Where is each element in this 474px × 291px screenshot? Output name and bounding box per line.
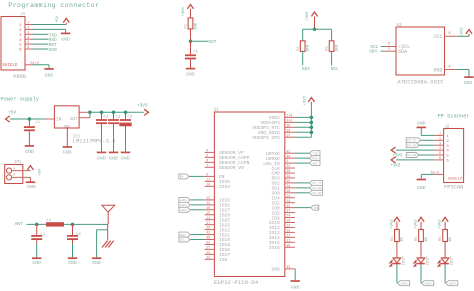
net tag FP_RX: [310, 185, 323, 190]
svg-text:10: 10: [206, 182, 210, 186]
pin VDDA of U1: [269, 114, 295, 122]
net tag TXD: [310, 151, 321, 156]
ground under J2: [417, 180, 426, 191]
chassis ground (antenna): [102, 230, 114, 248]
wire to RST label: [191, 40, 209, 42]
svg-text:12: 12: [206, 201, 210, 205]
wire U1 GND: [294, 269, 296, 280]
svg-text:SENSOR_VN: SENSOR_VN: [219, 165, 244, 171]
svg-text:GND: GND: [92, 260, 101, 266]
svg-text:FP_EN: FP_EN: [312, 192, 321, 195]
svg-text:+3V3: +3V3: [414, 219, 418, 229]
svg-text:22: 22: [287, 199, 291, 203]
capacitor C6 (polarized): [119, 120, 131, 126]
svg-text:15: 15: [287, 229, 291, 233]
section title: Power supply: [1, 96, 40, 102]
wire SCL label: [381, 46, 385, 48]
wire R2 to SDA: [302, 51, 304, 65]
svg-text:+3V3: +3V3: [390, 164, 401, 168]
svg-text:ATECC508A-SOIC: ATECC508A-SOIC: [397, 79, 444, 86]
wire VDD3P3_CPU to 3V3: [295, 136, 312, 138]
pin IO27 of U1: [205, 206, 231, 214]
svg-text:SDA: SDA: [302, 66, 310, 72]
value 1K8 of R2: [307, 44, 311, 52]
wire pin4: [33, 38, 49, 40]
svg-text:34: 34: [287, 184, 291, 188]
svg-text:LED1: LED1: [401, 282, 408, 285]
pin SENSOR_CAPP of U1: [205, 153, 250, 161]
pin VDD3P3_CPU of U1: [252, 133, 295, 141]
svg-text:6: 6: [439, 156, 441, 160]
net label +5V: [8, 111, 16, 116]
junction pullup rail: [313, 28, 317, 32]
svg-text:GND: GND: [417, 120, 426, 126]
supply +3V3 (LED3): [439, 217, 449, 229]
svg-text:2: 2: [13, 173, 15, 177]
wire R5 to LED2: [420, 242, 422, 259]
wire J2 pin6 to +3V3: [396, 159, 434, 161]
svg-text:1: 1: [13, 166, 15, 170]
net label TXD: [49, 33, 57, 38]
wire VCC to +3V3: [457, 34, 469, 36]
svg-text:FP_TX: FP_TX: [407, 140, 416, 143]
wire to C6: [125, 112, 127, 119]
svg-text:+3V3: +3V3: [182, 7, 186, 17]
svg-text:35: 35: [206, 241, 210, 245]
svg-text:GND: GND: [25, 149, 34, 155]
svg-text:9: 9: [206, 173, 208, 177]
capacitor C8: [67, 236, 78, 239]
pin IO21 of U1: [205, 231, 231, 239]
pin IO22 of U1: [205, 226, 231, 234]
svg-text:GND: GND: [186, 71, 195, 77]
connector JP1 body: [5, 165, 23, 184]
svg-text:TXD: TXD: [312, 152, 318, 155]
supply +3V3 (U3): [460, 27, 472, 37]
ground under pin2: [61, 33, 70, 42]
svg-text:24: 24: [287, 194, 291, 198]
wire to C8: [72, 224, 74, 235]
wire to C4: [36, 224, 38, 235]
wire J2 pin2: [421, 139, 435, 141]
junction C4 tap: [35, 223, 39, 227]
svg-text:23: 23: [287, 204, 291, 208]
ground under IC1: [63, 147, 72, 155]
svg-text:7: 7: [206, 163, 208, 167]
svg-text:FP_RX: FP_RX: [407, 144, 416, 147]
regulator IC1 body: [54, 106, 79, 130]
svg-text:FP_RX: FP_RX: [312, 187, 321, 190]
net label +3V3 (rail): [137, 104, 148, 109]
wire 3V3 column: [310, 103, 312, 138]
svg-text:23: 23: [206, 255, 210, 259]
ground under C1: [25, 146, 34, 155]
resistor R4: [395, 230, 400, 242]
wire +5V to IN: [10, 118, 55, 120]
net tag FP_TX: [310, 180, 323, 185]
svg-text:33: 33: [287, 174, 291, 178]
svg-text:RST: RST: [208, 39, 216, 45]
designator C3: [116, 116, 121, 120]
pin IO14 of U1: [269, 233, 295, 241]
net label IO0: [49, 48, 57, 53]
wire node to C5: [190, 41, 192, 54]
supply +5V arrow (left): [6, 116, 10, 122]
pin OUT of IC1: [79, 112, 90, 117]
supply +3V3 (J2 pin4): [391, 147, 403, 158]
net label ANT: [15, 221, 23, 227]
designator C6: [128, 116, 133, 120]
svg-text:R3: R3: [326, 46, 330, 51]
wire JP1 pin1 to +5V: [29, 169, 31, 172]
svg-text:ANT: ANT: [312, 162, 318, 165]
wire branch to GND: [96, 230, 98, 258]
wire C5 to GND: [190, 59, 192, 68]
svg-text:ESP32-PICO-D4: ESP32-PICO-D4: [214, 279, 259, 286]
wire U1 to tag TXD: [295, 152, 310, 154]
svg-text:GND: GND: [109, 155, 118, 161]
wire to C3: [113, 112, 115, 119]
pin SD0 of U1: [272, 189, 295, 197]
junction C2 tap: [100, 111, 104, 115]
svg-text:13: 13: [287, 224, 291, 228]
svg-text:1: 1: [446, 135, 449, 139]
svg-text:43: 43: [287, 265, 291, 269]
wire LED3 to tag: [444, 264, 446, 283]
net tag EN: [179, 174, 189, 179]
svg-text:GND: GND: [417, 185, 426, 191]
wire J2 pin4 to +3V3: [396, 149, 434, 151]
svg-text:5: 5: [439, 151, 441, 155]
pin IO16 of U1: [269, 243, 295, 251]
section title: FP Scanner: [438, 114, 470, 120]
wire pin5: [33, 43, 49, 45]
wire R3 to SCL: [331, 51, 333, 65]
supply +5V (top): [56, 15, 70, 23]
net tag LED1: [398, 281, 410, 286]
IC U3 body: [396, 27, 445, 75]
pin IO12 of U1: [269, 224, 295, 232]
pin EN of U1: [205, 173, 225, 181]
pin IO35 of U1: [205, 177, 231, 185]
pin IO25 of U1: [205, 216, 231, 224]
svg-text:FP Scanner: FP Scanner: [438, 114, 470, 120]
svg-text:1+9: 1+9: [287, 114, 293, 118]
supply +3V3 (J2 pin6): [390, 157, 401, 169]
svg-text:R5: R5: [415, 236, 419, 241]
svg-text:IN: IN: [56, 117, 62, 122]
svg-text:1K: 1K: [425, 236, 429, 241]
svg-text:GND: GND: [291, 285, 300, 291]
wire J2 pin5: [419, 154, 435, 156]
svg-text:1K8: 1K8: [307, 44, 311, 52]
supply +3V3 (U1): [303, 95, 314, 105]
designator C2: [104, 116, 109, 120]
net tag ANT: [310, 161, 321, 166]
ground under C6: [121, 152, 130, 161]
wire tag LED1 to U1: [190, 199, 205, 201]
wire C4 to GND: [36, 240, 38, 258]
svg-text:3: 3: [446, 145, 449, 149]
svg-text:2: 2: [19, 29, 22, 33]
svg-text:FP_TX: FP_TX: [312, 182, 321, 185]
capacitor C5: [185, 55, 196, 58]
svg-text:4: 4: [449, 65, 451, 69]
ground under C5: [186, 69, 195, 78]
svg-text:SDA: SDA: [180, 234, 186, 237]
net tag SDA (U1): [179, 232, 190, 237]
svg-text:FPSCAN: FPSCAN: [444, 185, 463, 191]
svg-text:LED2: LED2: [425, 282, 432, 285]
svg-text:6: 6: [446, 160, 449, 164]
pin IO5 of U1: [205, 255, 228, 263]
wire to C1: [28, 119, 30, 126]
svg-text:SHIELD: SHIELD: [448, 178, 463, 182]
svg-text:LED1: LED1: [400, 256, 404, 266]
resistor R3: [329, 41, 334, 52]
svg-text:LED2: LED2: [424, 256, 428, 266]
svg-text:SCL: SCL: [331, 66, 339, 72]
svg-text:5: 5: [206, 153, 208, 157]
pin GND of U1: [272, 265, 295, 273]
pin SENSOR_VN of U1: [205, 163, 244, 171]
pin stubs of J1: [25, 25, 33, 50]
pin IO13 of U1: [269, 229, 295, 237]
wire pin6: [33, 48, 49, 50]
pin LNA_IN of U1: [263, 159, 295, 167]
net label RXD: [49, 38, 57, 43]
svg-text:1: 1: [19, 24, 22, 28]
svg-text:EN: EN: [180, 176, 184, 179]
wire VDD3P3_RTC to 3V3: [295, 126, 312, 128]
svg-text:Power supply: Power supply: [1, 96, 40, 102]
svg-text:41: 41: [287, 149, 291, 153]
capacitor C4: [31, 236, 42, 239]
wire J2 pin3: [419, 144, 435, 146]
junctions 3V3 column: [310, 116, 314, 134]
svg-text:GND: GND: [63, 149, 72, 155]
svg-text:38: 38: [206, 236, 210, 240]
svg-text:R6: R6: [439, 236, 443, 241]
svg-text:C6: C6: [128, 116, 133, 120]
net tag FP_EN: [310, 190, 323, 195]
wire pin3: [33, 33, 49, 35]
svg-text:U1: U1: [214, 108, 220, 112]
pin IO4 of U1: [272, 194, 295, 202]
svg-text:C5: C5: [193, 51, 198, 55]
pin numbers 1-6 of J1: [27, 22, 29, 50]
svg-text:13: 13: [206, 196, 210, 200]
svg-text:4: 4: [446, 150, 449, 154]
junction C8 tap: [71, 223, 75, 227]
value 10K of R1: [194, 22, 198, 30]
svg-text:25: 25: [287, 243, 291, 247]
pin stubs of J2: [434, 132, 443, 161]
designator C5: [193, 51, 198, 55]
svg-text:2: 2: [439, 136, 441, 140]
svg-text:GND: GND: [97, 155, 106, 161]
pin IO16 of U1: [205, 246, 231, 254]
supply +5V (JP1): [27, 166, 42, 176]
svg-text:LED1: LED1: [180, 199, 187, 202]
svg-text:IO16: IO16: [269, 245, 280, 251]
net label SCL: [331, 66, 339, 72]
wire antenna gnd branch: [97, 224, 108, 229]
ground under C8: [68, 258, 77, 266]
svg-text:SCL: SCL: [180, 239, 186, 242]
inductor L2: [46, 222, 64, 226]
svg-text:+3V3: +3V3: [460, 27, 464, 37]
pin GND of U3: [433, 65, 456, 73]
pin SD3 of U1: [272, 174, 295, 182]
supply +3V3 (above R1): [182, 5, 194, 18]
wire C3 to GND: [113, 124, 115, 152]
net tag LED3 (U1): [179, 207, 190, 212]
wire R6 to LED3: [444, 242, 446, 259]
svg-text:3: 3: [439, 141, 441, 145]
svg-text:LM1117MPX-3.3: LM1117MPX-3.3: [73, 138, 116, 145]
pin SD1 of U1: [272, 184, 295, 192]
pin IO18 of U1: [205, 241, 231, 249]
wire tag LED3 to U1: [190, 209, 205, 211]
svg-text:GND: GND: [272, 267, 281, 273]
svg-text:GND: GND: [45, 73, 54, 79]
svg-text:3: 3: [19, 34, 22, 38]
svg-text:27: 27: [287, 209, 291, 213]
ground under JP1: [26, 182, 36, 190]
designator U1: [214, 108, 220, 112]
designator J1: [20, 13, 26, 17]
wire pin1 to +5V: [33, 23, 67, 25]
resistor R6: [443, 230, 448, 242]
antenna E1: [102, 205, 115, 224]
svg-text:5: 5: [446, 155, 449, 159]
pin U0RXD of U1: [266, 154, 295, 162]
junction C3 tap: [112, 111, 116, 115]
svg-text:37: 37: [206, 221, 210, 225]
pin SDA of U3: [385, 47, 408, 55]
net tag LED1 (U1): [179, 197, 190, 202]
wire C2 to GND: [101, 124, 103, 152]
svg-text:+3V3: +3V3: [390, 219, 394, 229]
junction C6 tap: [124, 111, 128, 115]
wire shield to GND: [33, 65, 50, 68]
net tag RXD: [310, 156, 321, 161]
resistor R2: [300, 41, 305, 52]
wire ANT rail: [27, 223, 108, 225]
ground under shield: [44, 69, 53, 79]
svg-text:S1+2: S1+2: [431, 172, 440, 176]
pin SHIELD of J1: [25, 62, 39, 66]
designator LED2: [424, 256, 428, 266]
wire U1 to tag ANT: [295, 162, 310, 164]
pin IO17 of U1: [205, 250, 231, 258]
connector J2 body: [444, 129, 464, 183]
svg-text:GND: GND: [121, 155, 130, 161]
designator IC1: [73, 135, 81, 139]
pin SHIELD of J2: [431, 172, 444, 176]
svg-text:LED3: LED3: [448, 256, 452, 266]
value 1K of R6: [449, 236, 453, 241]
wire LED1 to tag: [396, 264, 398, 283]
pin IO10 of U1: [269, 219, 295, 227]
net tag LED2: [422, 281, 434, 286]
pin VCC of U3: [433, 32, 456, 40]
designator C8: [76, 233, 81, 237]
net tag FP_TX (J2): [406, 138, 420, 143]
supply +3V3 (LED1): [390, 217, 400, 229]
svg-text:RXD: RXD: [312, 157, 318, 160]
svg-text:2: 2: [287, 159, 289, 163]
wire to C2: [101, 112, 103, 119]
pin SENSOR_VP of U1: [205, 149, 244, 157]
svg-text:11: 11: [206, 177, 210, 181]
wire pin2 to GND: [33, 29, 66, 32]
resistor R5: [419, 230, 424, 242]
wire C8 to GND: [72, 240, 74, 258]
wire U3 GND: [457, 70, 469, 77]
svg-text:15: 15: [206, 211, 210, 215]
svg-text:GND: GND: [61, 36, 70, 42]
svg-text:VCC: VCC: [433, 34, 442, 40]
svg-text:J1: J1: [20, 13, 26, 17]
designator L2: [47, 219, 52, 223]
designator LED1: [400, 256, 404, 266]
designator R1: [185, 23, 189, 28]
pin U0TXD of U1: [266, 149, 295, 157]
value 1K8 of R3: [336, 44, 340, 52]
svg-text:12: 12: [287, 233, 291, 237]
supply +3V3 arrow (rail): [144, 109, 148, 115]
svg-text:4: 4: [19, 39, 22, 43]
designator LED3: [448, 256, 452, 266]
pin 2 of JP1: [12, 173, 29, 178]
IC U1 body: [214, 112, 284, 277]
designator J2: [445, 125, 451, 129]
designator R4: [391, 236, 395, 241]
svg-text:6: 6: [19, 49, 22, 53]
svg-text:U3: U3: [397, 24, 403, 28]
svg-text:LED2: LED2: [180, 204, 187, 207]
designator C1: [35, 121, 40, 125]
svg-text:27: 27: [206, 246, 210, 250]
svg-text:GND: GND: [27, 184, 36, 190]
pin IO26 of U1: [205, 211, 231, 219]
svg-text:VDD3P3_CPU: VDD3P3_CPU: [252, 135, 280, 141]
wire U1 to tag FP_TX: [295, 182, 310, 184]
ground (antenna branch): [92, 258, 101, 266]
wire U1 to tag RXD: [295, 157, 310, 159]
net tag LED2 (U1): [179, 202, 190, 207]
pin CMD of U1: [272, 169, 295, 177]
svg-text:32: 32: [287, 179, 291, 183]
svg-text:SHIELD: SHIELD: [2, 64, 18, 68]
svg-text:14: 14: [206, 216, 210, 220]
svg-text:SDA: SDA: [369, 49, 377, 55]
designator C4: [40, 233, 45, 237]
svg-text:4: 4: [206, 149, 208, 153]
connector J1 body: [1, 17, 25, 71]
capacitor C3: [108, 120, 119, 123]
svg-text:1K: 1K: [401, 236, 405, 241]
pin SD2 of U1: [272, 179, 295, 187]
LED LED1: [390, 258, 401, 267]
svg-text:IO0: IO0: [49, 48, 57, 53]
ground under C2: [97, 152, 106, 161]
designator JP1: [14, 161, 22, 165]
svg-text:4: 4: [439, 146, 441, 150]
svg-text:OUT: OUT: [70, 118, 78, 122]
